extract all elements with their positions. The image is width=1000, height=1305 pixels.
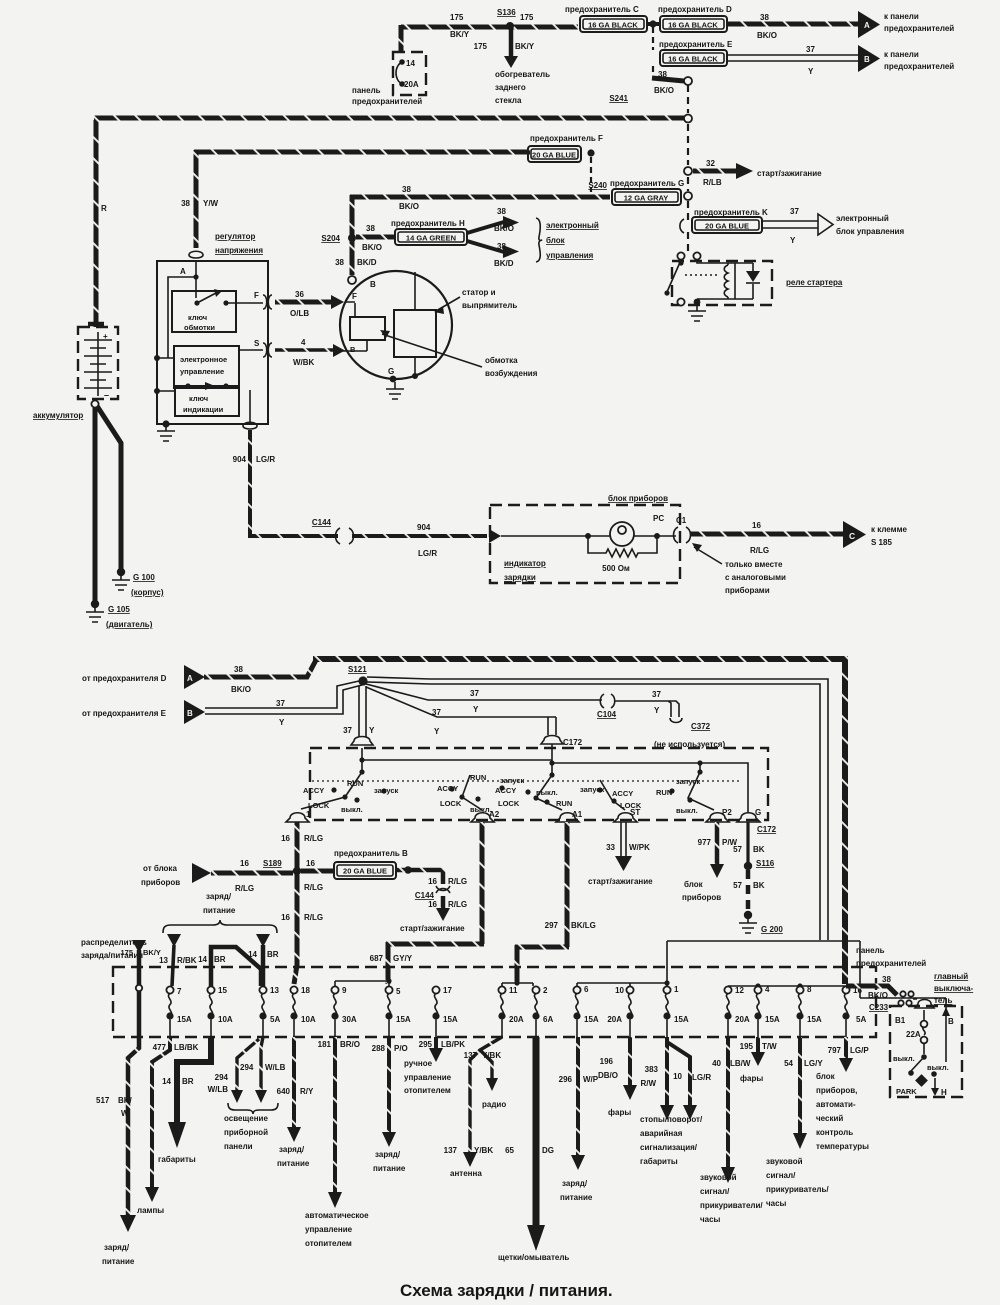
wire 977 P/W (P2 to блок приборов) [682, 822, 738, 902]
svg-text:R/LG: R/LG [304, 834, 323, 843]
svg-text:295: 295 [419, 1040, 433, 1049]
svg-text:предохранителей: предохранителей [884, 62, 954, 71]
svg-text:517: 517 [96, 1096, 110, 1105]
svg-text:лампы: лампы [137, 1206, 164, 1215]
svg-text:BK/O: BK/O [231, 685, 251, 694]
battery [33, 324, 118, 420]
svg-text:BK/O: BK/O [399, 202, 419, 211]
svg-text:предохранителей: предохранителей [856, 959, 926, 968]
svg-text:F: F [254, 291, 259, 300]
svg-text:640: 640 [277, 1087, 291, 1096]
feed wire 13 R/BK (to fuse 7) [159, 934, 197, 986]
svg-text:C104: C104 [597, 710, 617, 719]
svg-text:37: 37 [806, 45, 815, 54]
terminal A1 [556, 810, 583, 822]
svg-text:15A: 15A [584, 1015, 599, 1024]
svg-text:BR/O: BR/O [340, 1040, 360, 1049]
wire 37 Y to fuse panel (arrow B) [727, 45, 954, 76]
svg-text:RUN: RUN [656, 788, 672, 797]
svg-text:предохранитель C: предохранитель C [565, 5, 639, 14]
svg-text:индикатор: индикатор [504, 559, 546, 568]
terminal 1 [286, 810, 311, 822]
svg-text:20A: 20A [404, 80, 419, 89]
svg-text:15A: 15A [807, 1015, 822, 1024]
svg-text:65: 65 [505, 1146, 514, 1155]
svg-text:687: 687 [370, 954, 384, 963]
svg-text:C144: C144 [415, 891, 435, 900]
svg-text:Y/BK: Y/BK [482, 1051, 501, 1060]
mechanical coupling (dotted) [312, 780, 740, 782]
wire 175 BK/Y to rear window heater (arrow down) [474, 28, 550, 105]
fuse F (20 GA BLUE) [528, 134, 603, 192]
terminal I (regulator bottom) + connector [243, 390, 257, 429]
svg-text:C172: C172 [757, 825, 777, 834]
svg-text:37: 37 [470, 689, 479, 698]
svg-text:W/BK: W/BK [293, 358, 315, 367]
svg-text:7: 7 [177, 987, 182, 996]
svg-text:BK/: BK/ [118, 1096, 133, 1105]
wire 517 BK/W (заряд/питание, far left) [96, 1044, 139, 1266]
svg-text:LG/R: LG/R [418, 549, 437, 558]
svg-text:383: 383 [645, 1065, 659, 1074]
svg-text:RUN: RUN [556, 799, 572, 808]
fuse 11 (20A) [498, 986, 523, 1037]
svg-text:BK: BK [753, 881, 765, 890]
svg-text:Y: Y [808, 67, 814, 76]
svg-text:питание: питание [102, 1257, 135, 1266]
svg-text:заряд/: заряд/ [375, 1150, 401, 1159]
wire 37 Y (S121 to C172) [366, 687, 556, 736]
feed wire 14 BR (to fuse 13) [248, 934, 279, 986]
svg-text:30A: 30A [342, 1015, 357, 1024]
svg-text:LOCK: LOCK [308, 801, 330, 810]
svg-text:возбуждения: возбуждения [485, 369, 538, 378]
note только вместе с аналоговыми приборами [692, 543, 786, 595]
svg-text:137: 137 [444, 1146, 458, 1155]
svg-text:обогреватель: обогреватель [495, 70, 550, 79]
main switch (главный выключатель) [890, 972, 974, 1097]
svg-text:BK/D: BK/D [494, 259, 514, 268]
svg-text:щетки/омыватель: щетки/омыватель [498, 1253, 569, 1262]
wire 175 BK/Y (top horizontal) [401, 25, 578, 52]
svg-text:(корпус): (корпус) [131, 588, 164, 597]
wire 38 BK/D (S204 to alternator B) [335, 241, 377, 284]
svg-text:R/BK: R/BK [177, 956, 197, 965]
svg-text:10A: 10A [301, 1015, 316, 1024]
svg-text:LOCK: LOCK [440, 799, 462, 808]
svg-text:PC: PC [653, 514, 664, 523]
wire 36 O/LB (F to alternator) [275, 290, 344, 318]
svg-text:от предохранителя E: от предохранителя E [82, 709, 167, 718]
wire 14 BR (fuse 15 to габариты) [158, 1037, 214, 1164]
svg-text:36: 36 [295, 290, 304, 299]
svg-text:с аналоговыми: с аналоговыми [725, 573, 786, 582]
svg-text:14: 14 [406, 59, 415, 68]
svg-text:20 GA BLUE: 20 GA BLUE [343, 867, 387, 876]
wire старт/зажигание (32 R/LB) [693, 159, 822, 187]
svg-text:A: A [187, 674, 193, 683]
svg-text:тель: тель [934, 996, 952, 1005]
svg-text:Y: Y [279, 718, 285, 727]
svg-text:904: 904 [233, 455, 247, 464]
indicator relay (ключ индикации) [175, 382, 239, 416]
svg-text:R/LG: R/LG [235, 884, 254, 893]
wire 38 BK/O to fuse panel (arrow A) [727, 11, 954, 40]
wire 38 BK/O (fuse D feed) [204, 660, 316, 694]
jumper 14 BR (fuse 13 to fuse 15) [198, 947, 261, 986]
svg-text:ключ: ключ [188, 313, 207, 322]
wire 640 R/Y (fuse 18 to заряд/питание) [277, 1037, 314, 1168]
connector C172 (switch top) [541, 736, 583, 748]
svg-text:контроль: контроль [816, 1128, 853, 1137]
svg-text:B: B [350, 345, 356, 354]
alternator ground [386, 382, 404, 399]
svg-text:только вместе: только вместе [725, 560, 783, 569]
svg-text:15A: 15A [674, 1015, 689, 1024]
wires 294 W/LB (fuse 13 to освещение приборной панели) [208, 1037, 286, 1151]
svg-text:4: 4 [301, 338, 306, 347]
feed wire 175 BK/Y (распределитель) [120, 940, 160, 1044]
svg-text:294: 294 [215, 1073, 229, 1082]
svg-text:электронный: электронный [836, 214, 889, 223]
svg-text:заряда/питания: заряда/питания [81, 951, 143, 960]
svg-text:сигнал/: сигнал/ [700, 1187, 730, 1196]
svg-text:выключа-: выключа- [934, 984, 974, 993]
svg-text:12: 12 [735, 986, 744, 995]
svg-text:предохранителей: предохранителей [884, 24, 954, 33]
svg-text:37: 37 [276, 699, 285, 708]
svg-text:16: 16 [428, 877, 437, 886]
svg-text:BK/Y: BK/Y [450, 30, 470, 39]
svg-text:S240: S240 [588, 181, 607, 190]
svg-text:(двигатель): (двигатель) [106, 620, 153, 629]
svg-text:ключ: ключ [189, 394, 208, 403]
svg-text:G: G [755, 808, 761, 817]
svg-text:G: G [388, 367, 394, 376]
svg-text:12 GA GRAY: 12 GA GRAY [624, 194, 668, 203]
svg-text:управление: управление [180, 367, 224, 376]
svg-text:C172: C172 [563, 738, 583, 747]
wire 181 BR/O (fuse 9 to автоматическое управление отопителем) [305, 1037, 369, 1248]
wire 137 Y/BK (fuse 11 to радио / антенна) [444, 1037, 507, 1178]
svg-text:старт/зажигание: старт/зажигание [757, 169, 822, 178]
svg-text:904: 904 [417, 523, 431, 532]
svg-text:питание: питание [203, 906, 236, 915]
заряд/питание feeds (brace + arrows) [81, 892, 277, 960]
fuse 12 (20A) [724, 986, 749, 1037]
svg-text:B: B [187, 709, 193, 718]
svg-text:16: 16 [306, 859, 315, 868]
svg-text:175: 175 [120, 948, 133, 957]
svg-text:BK/D: BK/D [357, 258, 377, 267]
fuse C (16 GA BLACK) [565, 5, 647, 32]
svg-text:стекла: стекла [495, 96, 522, 105]
svg-text:ACCY: ACCY [303, 786, 324, 795]
svg-text:прикуриватели/: прикуриватели/ [700, 1201, 763, 1210]
svg-text:часы: часы [766, 1199, 787, 1208]
wire 196 DB/O (fuse 10 to фары) [598, 1037, 637, 1117]
terminal G + C172 [737, 808, 777, 834]
svg-text:аккумулятор: аккумулятор [33, 411, 83, 420]
svg-text:заднего: заднего [495, 83, 526, 92]
svg-text:габариты: габариты [640, 1157, 678, 1166]
svg-text:13: 13 [270, 986, 279, 995]
svg-text:175: 175 [450, 13, 464, 22]
svg-text:запуск: запуск [374, 786, 398, 795]
svg-text:16: 16 [752, 521, 761, 530]
wire 904 LG/R (regulator I down) [233, 430, 276, 536]
wire 16 R/LG to terminal S185 (arrow C) [690, 521, 907, 555]
svg-text:часы: часы [700, 1215, 721, 1224]
svg-text:15A: 15A [177, 1015, 192, 1024]
svg-text:питание: питание [277, 1159, 310, 1168]
svg-text:выкл.: выкл. [536, 788, 558, 797]
terminal ST [614, 808, 640, 822]
svg-text:10: 10 [673, 1072, 682, 1081]
bus brackets [335, 977, 846, 989]
wire 54 LG/Y (fuse 8 to звуковой сигнал/прикуриватель/часы) [766, 1037, 829, 1208]
voltage regulator box [154, 232, 268, 424]
svg-text:ACCY: ACCY [495, 786, 516, 795]
svg-text:G 100: G 100 [133, 573, 155, 582]
field relay (ключ обмотки) [172, 289, 263, 332]
svg-text:W/PK: W/PK [629, 843, 650, 852]
fuse D (16 GA BLACK) [658, 5, 732, 32]
svg-text:питание: питание [560, 1193, 593, 1202]
wire 4 W/BK (S to alternator) [275, 338, 345, 367]
wire 38 BK/O (to fuse G / S204) [350, 185, 610, 235]
fuse 2 (6A) [532, 986, 553, 1037]
svg-text:главный: главный [934, 972, 968, 981]
connector A (regulator top) [189, 251, 203, 258]
svg-text:R/LG: R/LG [750, 546, 769, 555]
svg-text:фары: фары [608, 1108, 631, 1117]
svg-text:14 GA GREEN: 14 GA GREEN [406, 234, 456, 243]
svg-text:57: 57 [733, 845, 742, 854]
svg-text:питание: питание [373, 1164, 406, 1173]
svg-text:освещение: освещение [224, 1114, 268, 1123]
svg-text:сигнализация/: сигнализация/ [640, 1143, 698, 1152]
svg-text:38: 38 [335, 258, 344, 267]
svg-text:16 GA BLACK: 16 GA BLACK [588, 21, 638, 30]
svg-text:32: 32 [706, 159, 715, 168]
svg-text:DB/O: DB/O [598, 1071, 618, 1080]
svg-text:предохранитель D: предохранитель D [658, 5, 732, 14]
svg-text:LB/BK: LB/BK [174, 1043, 199, 1052]
svg-text:W: W [121, 1109, 129, 1118]
terminal P2 [706, 808, 732, 822]
svg-text:панели: панели [224, 1142, 253, 1151]
svg-text:S136: S136 [497, 8, 516, 17]
svg-text:C372: C372 [691, 722, 711, 731]
fuse 8 (15A) [796, 985, 821, 1037]
fuse 16 (5A) [842, 986, 866, 1037]
svg-text:ручное: ручное [404, 1059, 433, 1068]
wire 295 LB/PK (fuse 17 to ручное управление отопителем) [404, 1037, 465, 1095]
svg-text:фары: фары [740, 1074, 763, 1083]
fuse 18 (10A) [290, 986, 315, 1037]
ground G100 (body) wire [97, 406, 164, 597]
svg-text:выкл.: выкл. [341, 805, 363, 814]
svg-text:блок: блок [816, 1072, 836, 1081]
node S136 [450, 8, 534, 39]
svg-text:38: 38 [497, 207, 506, 216]
svg-text:5A: 5A [270, 1015, 280, 1024]
svg-text:175: 175 [474, 42, 488, 51]
svg-text:Y: Y [434, 727, 440, 736]
svg-text:электронный: электронный [546, 221, 599, 230]
wire 37 Y pair (S121 wrap right side) [367, 677, 828, 940]
terminal F + connector [254, 291, 272, 309]
svg-text:зарядки: зарядки [504, 573, 536, 582]
wire 37 Y (S121 down to switch) [343, 686, 375, 745]
svg-text:8: 8 [807, 985, 812, 994]
wire 477 LB/BK (fuse 7 to лампы) [137, 1037, 199, 1215]
svg-text:20 GA BLUE: 20 GA BLUE [532, 151, 576, 160]
svg-text:приборов,: приборов, [816, 1086, 857, 1095]
label обмотка возбуждения with pointer [380, 330, 538, 378]
wire 687 GY/Y (A2 to fuse 5) [370, 822, 484, 984]
svg-text:ST: ST [630, 808, 640, 817]
svg-text:797: 797 [828, 1046, 842, 1055]
wire (main bus y=118) [94, 116, 684, 121]
svg-text:37: 37 [652, 690, 661, 699]
svg-text:C: C [849, 531, 855, 541]
svg-text:38: 38 [760, 13, 769, 22]
svg-text:обмотки: обмотки [184, 323, 215, 332]
svg-text:G 200: G 200 [761, 925, 783, 934]
svg-text:к клемме: к клемме [871, 525, 907, 534]
svg-text:прикуриватель/: прикуриватель/ [766, 1185, 829, 1194]
node S240 / fuse G (12 GA GRAY) [588, 179, 684, 205]
svg-text:от блока: от блока [143, 864, 177, 873]
svg-text:R/LG: R/LG [448, 900, 467, 909]
svg-text:57: 57 [733, 881, 742, 890]
svg-text:16 GA BLACK: 16 GA BLACK [668, 21, 718, 30]
wire 797 LG/P (fuse 16 to блок приборов / контроль температуры) [816, 1037, 869, 1151]
svg-text:предохранитель E: предохранитель E [659, 40, 733, 49]
svg-text:S241: S241 [609, 94, 628, 103]
svg-text:296: 296 [559, 1075, 573, 1084]
svg-text:реле стартера: реле стартера [786, 278, 843, 287]
svg-text:стопы/поворот/: стопы/поворот/ [640, 1115, 703, 1124]
svg-text:477: 477 [153, 1043, 167, 1052]
svg-text:блок: блок [546, 236, 566, 245]
regulator ground [157, 420, 175, 441]
label статор и выпрямитель with pointer [434, 288, 517, 314]
svg-text:LB/PK: LB/PK [441, 1040, 465, 1049]
electronic control (электронное управление) [174, 346, 263, 388]
svg-text:38: 38 [497, 242, 506, 251]
svg-text:приборами: приборами [725, 586, 770, 595]
svg-text:BK: BK [753, 845, 765, 854]
svg-text:14: 14 [198, 955, 207, 964]
svg-text:запуск: запуск [580, 785, 604, 794]
svg-text:10: 10 [615, 986, 624, 995]
svg-text:22A: 22A [906, 1030, 921, 1039]
svg-text:R/LG: R/LG [304, 883, 323, 892]
svg-text:ACCY: ACCY [437, 784, 458, 793]
wire 38 BK/O + connector C233 (to main switch) [846, 975, 934, 1012]
svg-text:антенна: антенна [450, 1169, 482, 1178]
svg-text:S: S [254, 339, 260, 348]
svg-text:G 105: G 105 [108, 605, 130, 614]
svg-text:175: 175 [520, 13, 534, 22]
svg-text:блок: блок [684, 880, 704, 889]
svg-text:5A: 5A [856, 1015, 866, 1024]
svg-text:R/Y: R/Y [300, 1087, 314, 1096]
wire 57 BK + node S116 + ground G200 [733, 822, 783, 934]
caption [400, 1281, 613, 1300]
svg-text:приборной: приборной [224, 1128, 268, 1137]
svg-text:блок приборов: блок приборов [608, 494, 668, 503]
svg-text:Y/W: Y/W [203, 199, 219, 208]
wire 37 Y (S121 to C104 / C372) [366, 684, 679, 717]
svg-text:20A: 20A [735, 1015, 750, 1024]
svg-text:GY/Y: GY/Y [393, 954, 413, 963]
svg-text:LG/R: LG/R [256, 455, 275, 464]
svg-text:приборов: приборов [682, 893, 721, 902]
svg-text:38: 38 [181, 199, 190, 208]
label панель предохранителей [856, 946, 926, 968]
svg-text:к панели: к панели [884, 12, 919, 21]
svg-text:17: 17 [443, 986, 452, 995]
alternator (stator and rectifier) circle [340, 271, 452, 382]
svg-text:ACCY: ACCY [612, 789, 633, 798]
connector C1 [674, 516, 691, 543]
svg-text:BK/Y: BK/Y [515, 42, 535, 51]
svg-text:1: 1 [674, 985, 679, 994]
svg-text:37: 37 [790, 207, 799, 216]
svg-text:15: 15 [218, 986, 227, 995]
svg-text:20A: 20A [509, 1015, 524, 1024]
node S121 [348, 665, 368, 686]
svg-text:R/LG: R/LG [448, 877, 467, 886]
svg-text:запуск: запуск [676, 777, 700, 786]
svg-text:BK/O: BK/O [494, 224, 514, 233]
svg-text:R/LG: R/LG [304, 913, 323, 922]
svg-text:Схема зарядки / питания.: Схема зарядки / питания. [400, 1281, 613, 1300]
svg-text:P/O: P/O [394, 1044, 408, 1053]
svg-text:W/LB: W/LB [265, 1063, 286, 1072]
svg-text:9: 9 [342, 986, 347, 995]
instrument cluster (блок приборов) box [490, 494, 680, 583]
svg-text:BR: BR [182, 1077, 194, 1086]
connector C144 [312, 518, 354, 544]
svg-text:137: 137 [464, 1051, 478, 1060]
svg-text:A: A [864, 21, 870, 30]
ground G105 (engine) wire [86, 408, 153, 629]
svg-text:BK/O: BK/O [757, 31, 777, 40]
svg-text:Y: Y [790, 236, 796, 245]
svg-text:заряд/: заряд/ [562, 1179, 588, 1188]
svg-text:управление: управление [305, 1225, 353, 1234]
svg-text:RUN: RUN [470, 773, 486, 782]
svg-text:отопителем: отопителем [404, 1086, 451, 1095]
svg-text:BK/O: BK/O [868, 991, 888, 1000]
svg-text:10A: 10A [218, 1015, 233, 1024]
switch group 5 (terminals P2 / G) [656, 769, 714, 815]
svg-text:блок управления: блок управления [836, 227, 904, 236]
svg-text:33: 33 [606, 843, 615, 852]
svg-text:старт/зажигание: старт/зажигание [588, 877, 653, 886]
svg-text:заряд/: заряд/ [206, 892, 232, 901]
svg-text:габариты: габариты [158, 1155, 196, 1164]
svg-text:H: H [941, 1088, 947, 1097]
svg-text:C1: C1 [676, 516, 687, 525]
svg-text:11: 11 [509, 986, 518, 995]
svg-text:20A: 20A [607, 1015, 622, 1024]
